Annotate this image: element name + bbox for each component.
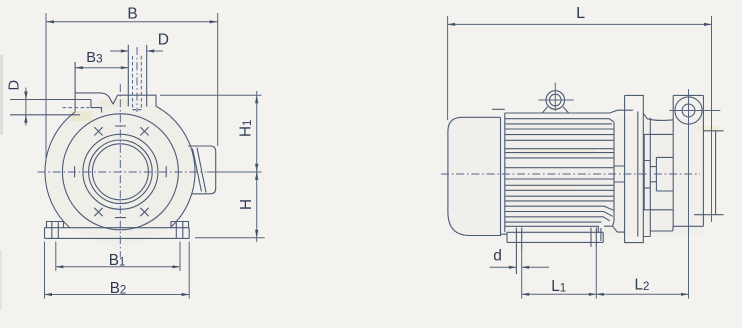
- right tab bolt lines: [176, 222, 183, 239]
- H extensions: [160, 95, 265, 238]
- left tab bolt lines: [52, 222, 59, 239]
- dim D left line: [25, 88, 27, 126]
- dim L2 line: [596, 293, 688, 295]
- B2 extensions: [45, 242, 190, 299]
- side lug shading lines: [193, 148, 207, 193]
- horizontal centerline: [38, 171, 207, 173]
- horizontal centerline: [441, 173, 700, 175]
- L2 extension long: [688, 89, 690, 299]
- shaft circle r28: [92, 144, 148, 200]
- dim L extensions: [448, 16, 712, 222]
- left foot tab: [47, 222, 64, 228]
- right foot tab: [171, 222, 189, 228]
- dim L1 arrows: [522, 293, 530, 296]
- ring circle r58: [62, 114, 178, 230]
- stub hidden hole left: [132, 56, 134, 110]
- eye centerline mark: [538, 83, 573, 111]
- bracket top: [673, 94, 703, 96]
- dim H line: [256, 167, 258, 242]
- dim D left arrows: [24, 92, 27, 100]
- dim B extensions: [46, 13, 218, 160]
- svg-text:d: d: [493, 247, 502, 264]
- body tint: [46, 98, 194, 246]
- dim B line: [46, 21, 218, 23]
- dim H1 line: [256, 91, 258, 176]
- dim d lines: [490, 266, 550, 268]
- ear slot bottom / D extension: [10, 114, 80, 116]
- eye base: [543, 107, 569, 113]
- ear left edge / B3 extension: [74, 62, 76, 112]
- stub hole bottom hooks: [133, 109, 142, 111]
- bracket circle inner: [682, 104, 695, 117]
- svg-text:D: D: [158, 31, 169, 48]
- dim L1 line: [522, 293, 597, 295]
- head right edge: [702, 95, 704, 226]
- svg-text:B: B: [127, 6, 137, 23]
- foot bolt lines right: [591, 228, 596, 248]
- svg-text:D: D: [6, 80, 22, 91]
- pump cavity: [643, 134, 673, 209]
- fin block bottom edge: [505, 225, 599, 227]
- dim L line: [448, 23, 712, 25]
- foot plate: [507, 232, 603, 242]
- dim B3 line: [75, 67, 128, 69]
- flat top: [118, 95, 157, 106]
- coupling mid: [650, 167, 656, 182]
- rim right edge: [715, 131, 717, 215]
- ear slot step: [91, 100, 102, 113]
- rim bottom edge: [694, 214, 724, 216]
- scan stains: [0, 55, 719, 310]
- quadrant tick marks: [75, 126, 167, 218]
- dim L2 arrows: [596, 293, 604, 296]
- motor end cap: [448, 117, 501, 235]
- stub hidden hole right: [140, 56, 142, 110]
- dim B3 arrows: [75, 66, 83, 69]
- lifting eye inner: [550, 94, 562, 106]
- vertical centerline: [119, 84, 121, 257]
- head block bottom: [673, 225, 704, 227]
- body outer circle arcs: [156, 106, 195, 228]
- svg-text:H: H: [238, 199, 255, 210]
- dim B arrows: [46, 20, 54, 23]
- dim B2 arrows: [45, 293, 53, 296]
- top lip chamfer: [610, 110, 634, 113]
- dim D top lines: [110, 50, 163, 52]
- head block left edge: [672, 95, 674, 226]
- dim d arrows: [509, 266, 517, 269]
- coupling hub: [656, 157, 673, 191]
- cap-foot junction: [492, 109, 507, 234]
- dim B2 line: [45, 294, 190, 296]
- shaft stub lines to flange: [615, 166, 625, 182]
- cooling fins: [505, 119, 614, 222]
- svg-text:L: L: [576, 5, 585, 22]
- flange plate: [625, 95, 644, 242]
- lifting eye outer: [546, 91, 565, 110]
- stub centerline: [136, 47, 138, 112]
- dim L arrows: [448, 23, 456, 26]
- LEFT-VIEW: [6, 6, 264, 299]
- base plate: [45, 228, 190, 239]
- side lug: [188, 146, 215, 194]
- gear case front wall: [649, 118, 651, 231]
- RIGHT-VIEW: [441, 5, 724, 299]
- fin block left edge: [504, 113, 506, 232]
- top stub: [128, 45, 146, 107]
- fin block top edge: [505, 112, 610, 114]
- dim H1 arrows: [255, 95, 258, 103]
- bracket circle outer: [675, 97, 702, 124]
- dim H arrows: [255, 172, 258, 180]
- fin block right face: [613, 122, 614, 227]
- dim D top arrows: [121, 49, 129, 52]
- flange inner line: [637, 112, 639, 237]
- ear slot top / D extension: [10, 99, 91, 101]
- foot bolt lines left: [516, 228, 521, 275]
- coupling shaft: [644, 161, 650, 188]
- svg-text:B3: B3: [86, 50, 103, 66]
- ear top and notch: [75, 93, 117, 104]
- bottom wedge: [598, 226, 624, 241]
- gear body bottom steps: [643, 226, 673, 236]
- bolt cross marks: [94, 127, 148, 216]
- dim B1 arrows: [56, 265, 64, 268]
- dim B1 line: [56, 266, 180, 268]
- B1 extensions: [56, 242, 180, 272]
- gear body top profile: [643, 113, 673, 120]
- bore circle r31.8: [89, 140, 153, 204]
- bracket circle centerline: [669, 110, 720, 112]
- L1 extensions: [522, 247, 597, 299]
- rim top edge: [703, 130, 723, 132]
- ear hidden hole: [63, 107, 90, 109]
- boss circle r37.5: [83, 134, 158, 209]
